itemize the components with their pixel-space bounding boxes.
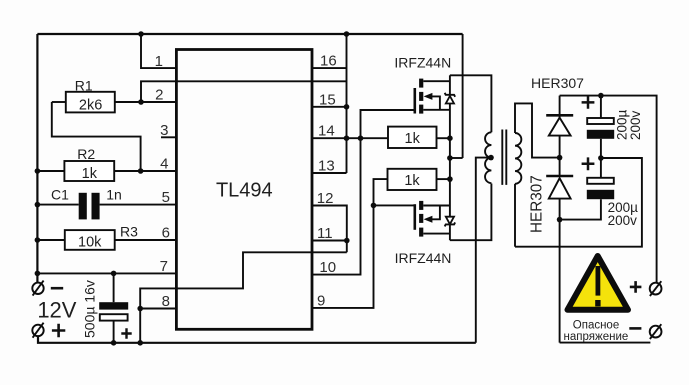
wire: R1 left loop down to pin4 node: [52, 102, 141, 171]
wire: pin14 lead to gate node: [312, 137, 361, 139]
wire: pin16 lead: [312, 67, 347, 69]
wire: +12V link: [450, 157, 463, 159]
wire: right rail vertical pins 16-15-14-13: [346, 34, 348, 173]
node: junction pin2 / R1: [138, 99, 144, 105]
node: pin15 junction: [344, 104, 350, 110]
node: gate bus / R4: [447, 135, 453, 141]
node: rail / R2: [35, 168, 41, 174]
terminal input plus: [32, 323, 43, 338]
svg-text:напряжение: напряжение: [564, 331, 629, 343]
capacitor C3 200u 200v (bottom): [560, 158, 615, 220]
node: capacitor midpoint node B: [598, 155, 604, 161]
svg-text:16: 16: [320, 53, 337, 70]
wire: center tap: [476, 158, 491, 343]
transformer T1 primary winding: [485, 132, 491, 183]
transformer core: [502, 130, 506, 185]
svg-text:15: 15: [319, 91, 336, 108]
svg-text:2: 2: [155, 87, 163, 104]
diode D1 HER307 top: [546, 96, 573, 136]
svg-text:9: 9: [317, 292, 325, 309]
warning triangle danger sign: [568, 256, 629, 310]
wire: output minus run: [560, 342, 651, 344]
transistor Q2 IRFZ44N (bottom MOSFET): [415, 201, 450, 237]
svg-text:1k: 1k: [82, 166, 98, 182]
svg-text:HER307: HER307: [529, 175, 546, 233]
svg-text:6: 6: [162, 225, 170, 242]
svg-text:IRFZ44N: IRFZ44N: [395, 250, 452, 266]
wire: internal bus line across IC (pin2 box top): [141, 81, 347, 102]
wire: pin2 lead: [141, 101, 177, 103]
node: gate node Q2: [371, 203, 377, 209]
resistor R2: [64, 161, 114, 181]
sign plus C2: [582, 96, 595, 109]
wire: node B rail (secondary bottom to capacitor midpoint): [515, 158, 642, 247]
terminal input minus: [32, 281, 43, 296]
wire: column below bottom diode: [449, 224, 451, 240]
op-amp U1 TL494 body: [176, 50, 312, 330]
svg-text:1: 1: [155, 53, 163, 70]
svg-text:1k: 1k: [404, 173, 420, 189]
sign plus input: [52, 324, 65, 337]
sign plus C3: [582, 157, 595, 170]
transformer T1 secondary winding: [515, 133, 521, 184]
wire: column between diodes: [449, 104, 451, 217]
wire: +12V drop to gate bus link: [462, 34, 464, 158]
wire: R2 to pin4: [114, 170, 176, 172]
node: D2 anode / C3 bottom: [557, 217, 563, 223]
node: gate bus / +12V link: [447, 155, 453, 161]
diode D3 zener top: [445, 93, 455, 104]
svg-text:7: 7: [160, 258, 168, 275]
resistor R3: [65, 230, 115, 250]
wire: diode column to output minus: [559, 199, 561, 343]
wire: Q2 gate wire: [374, 204, 415, 206]
node: C4 / bottom rail: [111, 340, 117, 346]
node: pin11 junction: [344, 238, 350, 244]
wire: Q2 gate node up to R5: [374, 179, 388, 205]
diode D4 zener bottom: [445, 217, 455, 227]
wire: pin7 ground row: [37, 272, 176, 274]
node: pin4 / R1 loop: [138, 168, 144, 174]
node: rail / C1: [35, 202, 41, 208]
svg-text:14: 14: [318, 123, 335, 140]
node: pin7 / C4: [111, 271, 117, 277]
node A: [557, 155, 563, 161]
node: rail / R3: [35, 237, 41, 243]
svg-text:TL494: TL494: [216, 180, 273, 202]
pin 3 stub: [161, 136, 177, 138]
wire: pin1 to top rail: [141, 34, 177, 68]
wire: top +12V rail: [37, 33, 462, 35]
svg-text:12V: 12V: [37, 297, 76, 322]
wire: R3 to pin6: [115, 239, 177, 241]
wire: bottom ground rail: [38, 336, 476, 343]
wire: secondary top lead to diode node A: [515, 103, 560, 157]
wire: pin11 lead: [312, 240, 347, 242]
wire: C1 to pin5: [100, 204, 177, 206]
svg-text:R2: R2: [77, 146, 95, 162]
svg-text:R3: R3: [120, 224, 138, 240]
wire: bottom feed to transformer primary: [450, 184, 492, 241]
svg-text:Опасное: Опасное: [573, 319, 619, 331]
svg-text:12: 12: [317, 190, 334, 207]
node: rail / pin7: [35, 271, 41, 277]
svg-text:11: 11: [317, 225, 333, 242]
node: ground jog / bottom rail: [137, 340, 143, 346]
node: pin14 junction: [344, 135, 350, 141]
svg-text:10: 10: [319, 259, 336, 276]
node: top rail / right vertical: [344, 31, 350, 37]
svg-text:1k: 1k: [405, 131, 421, 147]
svg-text:13: 13: [318, 157, 335, 174]
terminal output minus: [650, 324, 662, 339]
sign plus C4: [121, 328, 131, 338]
node: gate bus / R5: [447, 176, 453, 182]
svg-text:C1: C1: [51, 187, 69, 203]
node: center tap: [488, 155, 494, 161]
resistor R4 1k (top gate): [361, 127, 450, 148]
node: pin8 / ground jog: [137, 306, 143, 312]
resistor R5 1k (bottom gate): [388, 169, 450, 190]
wire: gate bus vertical (drain-diode column): [449, 75, 451, 94]
node: plus rail / C2: [598, 93, 604, 99]
wire: diode column node A: [559, 136, 561, 176]
node: gate node Q1: [358, 135, 364, 141]
svg-text:IRFZ44N: IRFZ44N: [394, 55, 451, 71]
terminal output plus: [650, 281, 662, 296]
sign minus output: [629, 327, 641, 330]
svg-text:8: 8: [162, 293, 170, 310]
node: junction top rail / pin1: [138, 31, 144, 37]
capacitor C2 200u 200v (top): [587, 96, 614, 158]
svg-text:1n: 1n: [106, 187, 122, 203]
wire: output plus rail: [560, 96, 657, 283]
sign minus input: [51, 287, 63, 290]
svg-text:R1: R1: [75, 78, 93, 94]
transistor Q1 IRFZ44N (top MOSFET): [415, 79, 450, 114]
wire: pin15 lead: [312, 106, 347, 108]
wire: pin8 lead: [140, 308, 176, 310]
wire: ground jog from pins 11-12 through IC to bottom rail: [140, 252, 347, 342]
wire: pin9 lead and riser to Q2 gate node: [312, 205, 374, 308]
diode D2 HER307 bottom: [546, 176, 573, 199]
wire: left input rail: [36, 34, 38, 283]
sign plus output: [630, 281, 642, 293]
svg-text:500µ 16v: 500µ 16v: [81, 280, 97, 338]
wire: secondary bottom lead: [514, 184, 516, 247]
svg-text:200v: 200v: [608, 213, 638, 228]
wire: top feed to transformer primary: [450, 75, 492, 132]
capacitor C1 1n: [79, 193, 100, 220]
svg-text:4: 4: [160, 156, 168, 173]
svg-text:200v: 200v: [628, 110, 643, 140]
svg-text:10k: 10k: [78, 234, 102, 250]
svg-text:3: 3: [160, 122, 168, 139]
wire: pin13 lead: [312, 172, 347, 174]
wire: pin6 row left: [37, 239, 64, 241]
wire: pin12 lead and drop to pin11: [312, 206, 347, 253]
wire: pin4 row: [37, 170, 64, 172]
svg-text:5: 5: [162, 189, 170, 206]
svg-text:2k6: 2k6: [79, 98, 102, 114]
resistor R1: [52, 92, 141, 113]
svg-text:HER307: HER307: [531, 75, 584, 91]
wire: pin10 lead and gate bus up to Q1 gate: [312, 110, 414, 275]
capacitor C4 500u 16v: [99, 273, 128, 342]
wire: pin5 row left: [37, 204, 78, 206]
